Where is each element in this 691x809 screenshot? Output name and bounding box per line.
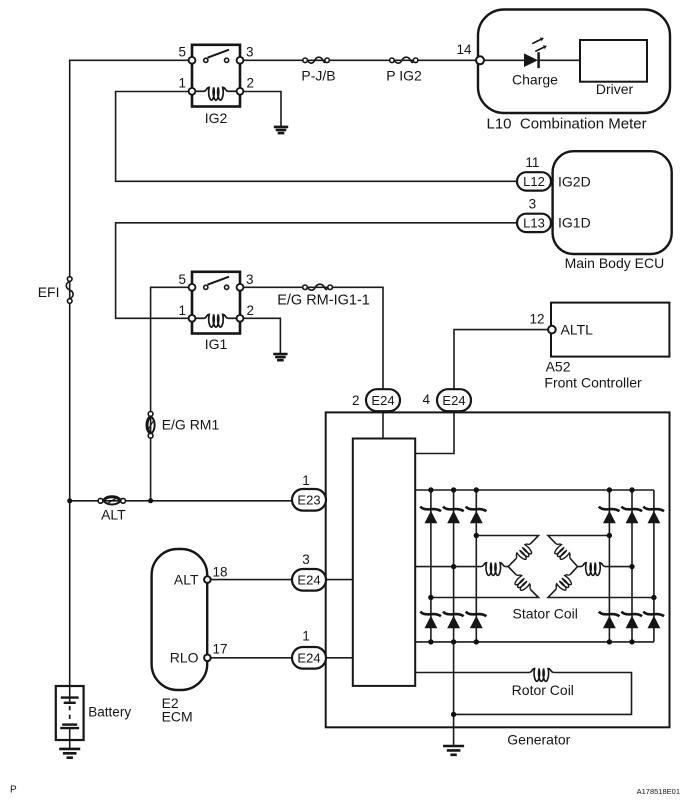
svg-text:1: 1 <box>178 76 186 91</box>
svg-text:IG2: IG2 <box>205 110 228 126</box>
svg-text:Generator: Generator <box>507 732 570 748</box>
svg-text:3: 3 <box>246 272 254 287</box>
svg-text:2: 2 <box>352 393 360 408</box>
svg-text:ALT: ALT <box>174 572 199 588</box>
svg-text:E/G RM1: E/G RM1 <box>162 417 220 433</box>
svg-text:EFI: EFI <box>38 284 60 300</box>
svg-text:E24: E24 <box>442 393 465 408</box>
svg-text:E/G RM-IG1-1: E/G RM-IG1-1 <box>277 293 370 309</box>
svg-text:IG1D: IG1D <box>558 215 591 231</box>
svg-text:Charge: Charge <box>512 72 558 88</box>
svg-text:Front Controller: Front Controller <box>544 375 642 391</box>
svg-text:Rotor Coil: Rotor Coil <box>512 682 574 698</box>
svg-text:E24: E24 <box>297 650 320 665</box>
svg-text:IG1: IG1 <box>205 336 228 352</box>
svg-text:L13: L13 <box>523 216 545 231</box>
svg-text:E23: E23 <box>297 492 320 507</box>
svg-text:4: 4 <box>422 392 430 407</box>
svg-text:ECM: ECM <box>162 708 193 724</box>
svg-text:ALT: ALT <box>101 507 126 523</box>
svg-text:ALTL: ALTL <box>561 322 594 338</box>
svg-text:5: 5 <box>178 45 186 60</box>
svg-text:RLO: RLO <box>170 650 199 666</box>
svg-text:L10 Combination Meter: L10 Combination Meter <box>487 116 647 133</box>
svg-text:1: 1 <box>302 473 310 488</box>
svg-text:Main Body ECU: Main Body ECU <box>565 255 665 271</box>
svg-text:P IG2: P IG2 <box>386 68 422 84</box>
svg-text:P: P <box>10 785 17 796</box>
svg-text:3: 3 <box>246 45 254 60</box>
svg-text:A178518E01: A178518E01 <box>637 787 680 796</box>
svg-text:18: 18 <box>213 565 228 580</box>
svg-text:P-J/B: P-J/B <box>301 68 335 84</box>
svg-text:3: 3 <box>302 552 310 567</box>
svg-text:A52: A52 <box>546 359 571 375</box>
svg-text:E24: E24 <box>371 393 394 408</box>
svg-text:17: 17 <box>213 642 228 657</box>
svg-text:E24: E24 <box>297 572 320 587</box>
svg-text:Stator Coil: Stator Coil <box>513 605 578 621</box>
svg-text:Battery: Battery <box>88 705 131 720</box>
svg-text:1: 1 <box>302 629 310 644</box>
svg-text:14: 14 <box>456 42 472 57</box>
svg-text:IG2D: IG2D <box>558 173 591 189</box>
svg-text:2: 2 <box>247 303 255 318</box>
svg-text:12: 12 <box>529 312 544 327</box>
svg-text:L12: L12 <box>523 174 545 189</box>
svg-text:3: 3 <box>529 197 537 212</box>
svg-text:5: 5 <box>178 272 186 287</box>
svg-text:2: 2 <box>247 76 255 91</box>
svg-text:1: 1 <box>178 303 186 318</box>
svg-text:Driver: Driver <box>596 81 634 97</box>
svg-text:11: 11 <box>525 155 539 170</box>
